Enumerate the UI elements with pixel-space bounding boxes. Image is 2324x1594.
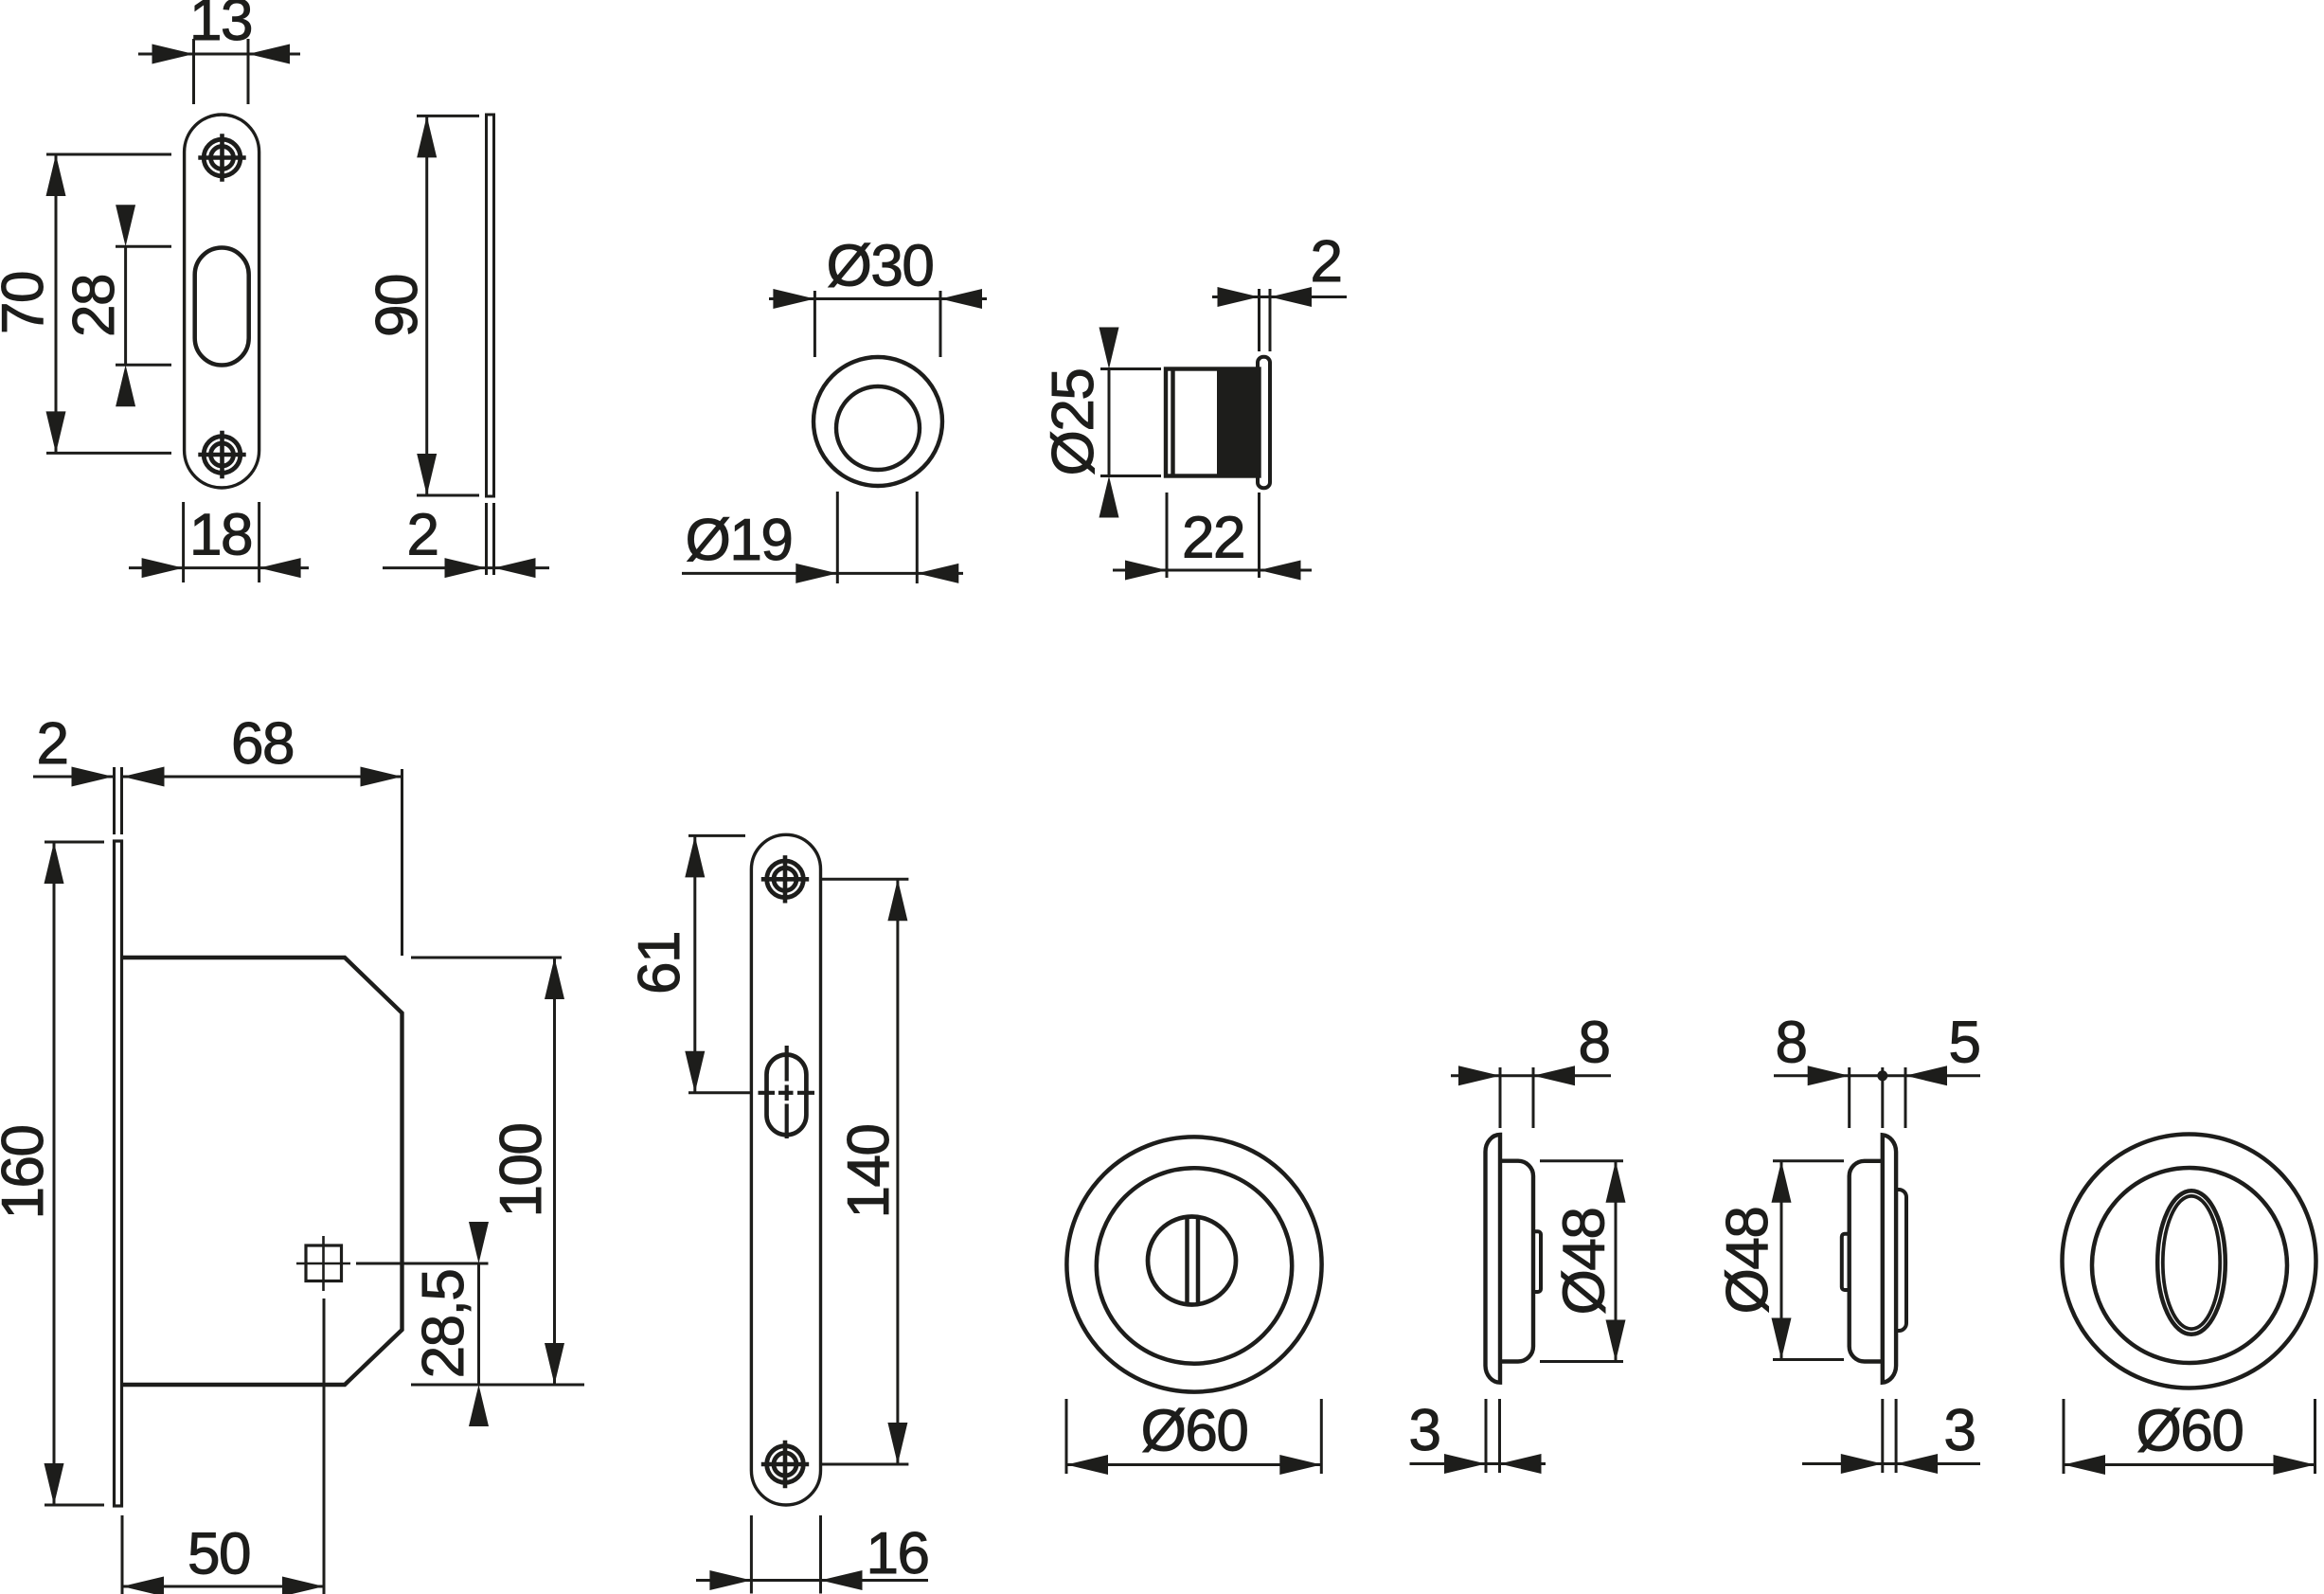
dimension 3 line and arrows (A): [1410, 1462, 1546, 1465]
oval rosette ring circle: [2092, 1168, 2287, 1363]
dimension 2 extension lines (cylinder): [1258, 289, 1260, 351]
dimension 160 extension lines: [45, 841, 104, 844]
svg-text:100: 100: [489, 1124, 554, 1218]
svg-text:8: 8: [1579, 1011, 1610, 1076]
knob rosette turn knob circle: [1148, 1217, 1236, 1305]
lock faceplate front outline: [751, 834, 820, 1505]
svg-text:Ø19: Ø19: [686, 508, 793, 573]
svg-text:Ø60: Ø60: [2136, 1399, 2244, 1464]
strike plate front view outline: [185, 115, 259, 488]
dimension 3 extension lines (B): [1881, 1399, 1884, 1473]
dimension 28.5 line and arrows: [477, 1263, 480, 1385]
oval rosette outer circle: [2063, 1135, 2316, 1388]
rosette B cap profile: [1850, 1161, 1883, 1362]
dimension 140 line and arrows: [896, 879, 899, 1464]
dimension 28 line and arrows: [124, 246, 127, 365]
svg-text:8: 8: [1776, 1011, 1807, 1076]
dimension D48 line and arrows (B): [1780, 1161, 1783, 1360]
dimension 8 and 5 extension lines (B): [1848, 1067, 1850, 1128]
svg-text:5: 5: [1949, 1011, 1980, 1076]
svg-text:140: 140: [836, 1125, 902, 1219]
dimension 50 line and arrows: [122, 1585, 324, 1588]
svg-text:2: 2: [1311, 229, 1342, 295]
dimension 2 line and arrows (cylinder): [1212, 296, 1347, 298]
dimension D60 extension lines (knob rosette): [1065, 1399, 1068, 1474]
rosette B flange profile: [1883, 1135, 1896, 1382]
lock faceplate side strip: [115, 841, 122, 1506]
svg-text:160: 160: [0, 1126, 56, 1220]
dimension 13 line and arrows: [138, 53, 300, 56]
dimension 3 line and arrows (B): [1802, 1462, 1980, 1465]
knob rosette ring circle: [1097, 1168, 1292, 1363]
svg-text:50: 50: [188, 1522, 250, 1587]
cylinder cup black band: [1217, 369, 1260, 476]
flush pull ring outer circle: [813, 357, 942, 486]
dimension 90 extension lines: [417, 115, 479, 117]
dimension 2 extension lines (side view): [485, 503, 488, 575]
svg-text:28,5: 28,5: [411, 1270, 476, 1379]
dimension 70 line and arrows: [55, 154, 58, 453]
dimension 2 line and arrows (side view): [383, 566, 549, 569]
svg-text:2: 2: [37, 711, 68, 777]
dimension 3 extension lines (A): [1485, 1399, 1488, 1473]
svg-text:13: 13: [189, 0, 252, 53]
dimension D19 extension lines: [836, 492, 839, 583]
dimension 22 extension lines: [1166, 493, 1169, 578]
dimension 68 line and arrows: [123, 776, 402, 779]
svg-text:2: 2: [407, 503, 438, 568]
svg-text:28: 28: [62, 275, 127, 337]
dimension 68 right extension line: [401, 769, 403, 956]
dimension 140 extension lines: [819, 878, 908, 881]
svg-text:3: 3: [1409, 1398, 1440, 1463]
svg-text:Ø25: Ø25: [1041, 369, 1106, 476]
lock spindle centerlines: [322, 1236, 325, 1291]
oval grip outer ellipse: [2157, 1191, 2226, 1334]
svg-text:16: 16: [867, 1521, 929, 1586]
dimension D30 line and arrows: [769, 297, 987, 300]
lock case outline: [122, 958, 402, 1385]
svg-text:Ø30: Ø30: [827, 234, 934, 299]
dimension 70 extension lines: [46, 153, 171, 156]
dimension 2 line and arrow (lock): [33, 776, 114, 779]
dimension D25 line and arrows: [1108, 369, 1111, 476]
dimension 2 extension lines (lock): [113, 767, 116, 834]
oval grip inner ellipse: [2163, 1196, 2220, 1329]
dimension 22 line and arrows: [1113, 569, 1312, 572]
dimension 28.5 extension line: [356, 1263, 489, 1265]
svg-text:68: 68: [231, 711, 294, 777]
dimension D48 extension lines (A): [1540, 1159, 1623, 1162]
strike plate latch slot: [195, 248, 249, 366]
dimension 8 and 5 line, arrows and dot (B): [1774, 1074, 1980, 1077]
faceplate screw hole bottom: [767, 1446, 804, 1483]
svg-text:3: 3: [1944, 1398, 1975, 1463]
dimension 18 line and arrows: [129, 566, 309, 569]
svg-text:Ø60: Ø60: [1141, 1399, 1248, 1464]
dimension 8 line and arrows (A): [1451, 1074, 1611, 1077]
strike plate side view outline: [487, 115, 494, 496]
svg-text:90: 90: [365, 275, 430, 337]
dimension D60 line and arrows (oval rosette): [2064, 1463, 2315, 1466]
cylinder cup rim line: [1171, 369, 1174, 476]
svg-text:Ø48: Ø48: [1552, 1209, 1618, 1316]
dimension 90 line and arrows: [425, 116, 428, 495]
rosette B oval grip profile: [1896, 1190, 1906, 1331]
strike plate screw hole top: [204, 139, 241, 176]
dimension 28 extension lines: [116, 245, 171, 248]
rosette A flange profile: [1486, 1135, 1501, 1383]
dimension 8 extension lines (A): [1499, 1067, 1502, 1128]
dimension D60 extension lines (oval rosette): [2063, 1399, 2065, 1474]
cylinder cup body outline: [1166, 369, 1260, 476]
dimension 16 line and arrows: [696, 1579, 928, 1582]
faceplate slot centerlines: [759, 1091, 776, 1095]
lock spindle square: [306, 1245, 342, 1281]
dimension 50 extension lines: [121, 1515, 124, 1594]
dimension 100 extension lines: [411, 957, 562, 959]
dimension 160 line and arrows: [53, 842, 56, 1505]
svg-text:70: 70: [0, 272, 56, 334]
dimension 18 extension lines: [182, 502, 185, 582]
svg-text:18: 18: [189, 503, 252, 568]
svg-text:61: 61: [627, 932, 692, 994]
rosette A cap profile: [1500, 1161, 1533, 1362]
dimension D25 extension lines: [1100, 367, 1161, 370]
svg-text:22: 22: [1182, 506, 1244, 571]
faceplate spindle slot: [767, 1055, 807, 1136]
dimension D60 line and arrows (knob rosette): [1066, 1463, 1321, 1466]
strike plate screw hole bottom: [204, 437, 241, 474]
dimension 13 extension lines: [192, 39, 195, 104]
dimension D30 extension lines: [813, 291, 816, 357]
dimension 100 line and arrows: [553, 958, 556, 1385]
flush pull ring inner circle: [836, 386, 920, 470]
rosette A knob stub: [1533, 1231, 1541, 1292]
knob rosette slot lines: [1185, 1217, 1189, 1305]
dimension 61 line and arrows: [693, 835, 696, 1092]
dimension D48 extension lines (B): [1773, 1159, 1844, 1162]
rosette B release button: [1842, 1234, 1850, 1290]
dimension D48 line and arrows (A): [1615, 1161, 1618, 1362]
faceplate screw hole top: [767, 861, 804, 898]
cylinder cup flange: [1258, 357, 1270, 488]
knob rosette outer circle: [1066, 1137, 1321, 1391]
svg-text:Ø48: Ø48: [1715, 1208, 1780, 1315]
dimension 16 extension lines: [750, 1515, 753, 1594]
dimension D19 line and arrows: [682, 572, 963, 575]
dimension 61 extension lines: [688, 834, 745, 837]
